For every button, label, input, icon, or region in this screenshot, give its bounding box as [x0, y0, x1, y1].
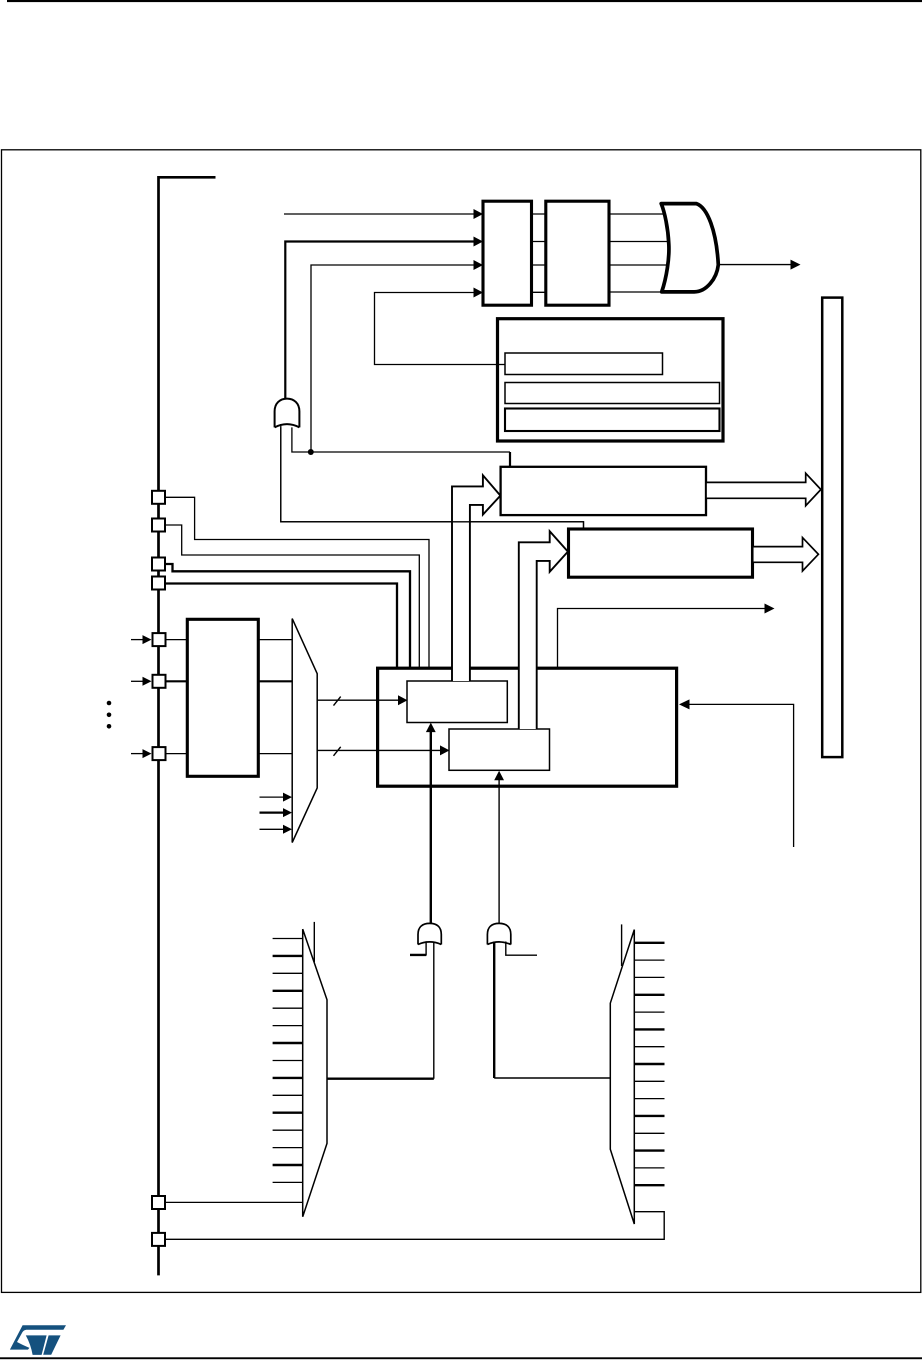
box: trigger controller [483, 201, 532, 305]
wire: row3 box2 to OR [608, 264, 673, 266]
wire: channel 2 through [166, 680, 189, 682]
node: bus square chn [153, 747, 166, 760]
wire: bus tap 3 to counter block [165, 564, 410, 667]
arrowhead: row1 into box1 [474, 209, 484, 219]
block arrow: register B to data bus [753, 538, 819, 571]
wire: row1 box2 to OR [608, 213, 673, 215]
box: register A (preload) [501, 467, 706, 515]
node: bus square 5 [152, 1196, 165, 1209]
mux M2: trigger input mux left [303, 929, 327, 1217]
arrowhead: row2 into box1 [474, 237, 484, 247]
arrowhead: row3 into box1 [474, 260, 484, 270]
node: ellipsis dots [107, 701, 112, 706]
arrow: external input chn [131, 753, 144, 755]
wire: row1 input (TRGI src) [284, 213, 475, 215]
block arrow: prescaler preload up to register A [452, 475, 500, 681]
node: bus square 3 [152, 558, 165, 571]
box: register field 1 [505, 353, 663, 375]
wire: row3 from UG node [311, 265, 475, 452]
wire: mux M3 select [621, 924, 623, 966]
wire: drop to register A top [509, 452, 511, 467]
page top rule [7, 0, 922, 2]
wire: bus tap 2 to counter block [165, 525, 419, 667]
wire: bus tap 6 to mux M3 [165, 1212, 664, 1240]
wire: OR3 output up to prescaler [430, 731, 432, 930]
node: bus square ch1 [153, 633, 166, 646]
node: bus square 4 [152, 577, 165, 590]
arrow: external input ch2 [131, 680, 144, 682]
or gate U3: clock gating OR left [418, 923, 441, 944]
wire: mux M3 input stubs [634, 943, 664, 1185]
logo: ST wing [10, 1325, 66, 1349]
node: bus square ch2 [153, 675, 166, 688]
arrow: external input ch1 [131, 639, 144, 641]
wire: row1 box1-box2 gap [530, 213, 547, 215]
node: junction dot on UG wire [308, 449, 314, 455]
wire: row3 box1-box2 gap [530, 264, 547, 266]
box: register B (shadow) [569, 529, 753, 577]
wire: mux M1 output 2 to counter [317, 749, 441, 751]
APB bus line with top arm [159, 177, 216, 1275]
bus bar: vertical data bus [822, 298, 842, 757]
wire: mux M2 output to OR3 [327, 1077, 434, 1079]
wire: bus tap 1 to counter block [165, 497, 429, 667]
box: register field 3 [505, 409, 720, 432]
wire: row4 box1-box2 gap [530, 291, 547, 293]
wire: channel 1 through [166, 639, 189, 641]
arrowhead: row4 into box1 [474, 288, 484, 298]
box: slave mode controller [546, 201, 609, 305]
wire: update OR right input / UG [292, 424, 510, 452]
wire: OR4 right input stub [506, 942, 537, 956]
logo: ST t-stroke [43, 1335, 60, 1354]
or gate U4: clock gating OR right [487, 923, 510, 944]
arrow: mux select a [260, 796, 285, 798]
box: capture/compare input block [187, 619, 258, 776]
box: register field 2 [505, 383, 720, 404]
wire: row2 box2 to OR [608, 241, 673, 243]
wire: update OR left input from register B top [281, 424, 584, 529]
wire: row4 from register 1 [375, 293, 506, 365]
wire: bus tap 4 to counter block [165, 584, 397, 668]
wire: mux M2 select [313, 922, 315, 962]
mux M3: trigger input mux right [610, 930, 634, 1224]
wire: update OR left input (redrawn over shafts) [281, 424, 584, 529]
wire: row4 box2 to OR [608, 291, 667, 293]
wire: mux M3 output to OR4 [494, 1077, 610, 1079]
wire: mux M2 input stubs [273, 939, 303, 1183]
box: prescaler (inner 1) [407, 681, 507, 723]
node: bus square 6 [152, 1233, 165, 1246]
box: counter core (inner 2) [449, 729, 550, 770]
arrow: mux select b [260, 811, 285, 813]
block arrow: register A to data bus [706, 473, 821, 505]
page bottom rule [0, 1357, 922, 1359]
slash: bus width tick 1 [334, 697, 341, 706]
wire: row2 from update OR gate [285, 242, 474, 401]
wire: OR4 left input from mux M3 [493, 942, 495, 1079]
wire: OR3 right input from mux M2 [433, 942, 435, 1079]
wire: update event out arrow [558, 609, 766, 669]
wire: OR4 output up to counter core [498, 779, 500, 930]
logo: ST s-bottom [26, 1335, 47, 1355]
or gate U1: event OR (4-input, output right) [661, 204, 718, 292]
slash: bus width tick 2 [334, 747, 341, 756]
node: bus square 1 [152, 491, 165, 504]
wire: OR3 left input stub [410, 941, 426, 954]
mux M1: input mode mux [292, 619, 317, 843]
box: control registers container [498, 319, 724, 441]
wire: stub into register field 1 [496, 364, 506, 366]
wire: control input into counter block [688, 704, 794, 847]
box: counter block [378, 668, 677, 786]
arrow: mux select c [260, 828, 285, 830]
wire: bus tap 5 to mux M2 [165, 1201, 303, 1203]
node: bus square 2 [152, 519, 165, 532]
wire: OR output arrow [717, 264, 792, 266]
block arrow: counter preload up to register B [519, 531, 568, 729]
wire: row2 box1-box2 gap [530, 241, 547, 243]
or gate U2: update event OR (2-input, output up) [275, 399, 300, 428]
wire: channel n through [166, 753, 189, 755]
wire: mux M1 output 1 to prescaler [317, 699, 399, 701]
